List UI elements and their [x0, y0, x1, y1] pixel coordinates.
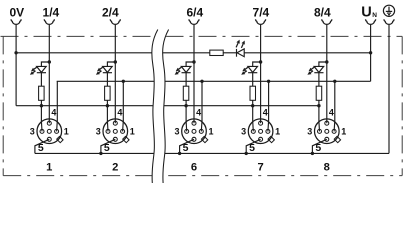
- svg-text:7/4: 7/4: [253, 5, 270, 19]
- wire UN drop to pin 1 socket 6: [200, 81, 203, 131]
- wire power indicator branch UN side: [244, 52, 370, 54]
- wire resistor to 0V rail and pin 3: [40, 100, 43, 131]
- svg-text:0V: 0V: [9, 5, 24, 19]
- resistor R7: [250, 86, 256, 100]
- svg-text:4: 4: [117, 108, 122, 118]
- socket X7 pin 1: [266, 129, 270, 133]
- wire pin 5 to PE bus socket 6: [180, 139, 194, 153]
- socket X7 body: [248, 119, 273, 144]
- svg-text:2: 2: [112, 161, 118, 173]
- junction PE bus 7: [245, 152, 248, 155]
- junction 0V rail 1: [40, 104, 43, 107]
- resistor R8: [316, 86, 322, 100]
- socket X7 pin 3: [251, 129, 255, 133]
- wire UN feed rail to pins 1: [57, 80, 371, 82]
- LED V7 emission arrows: [245, 67, 248, 69]
- socket X6 pin 1: [199, 129, 203, 133]
- socket X1 pin 5: [47, 137, 51, 141]
- wire LED branch socket 8: [319, 62, 327, 66]
- wire UN drop to pin 1 socket 8: [333, 81, 336, 131]
- wire PE bus to pins 5: [35, 152, 389, 154]
- junction 0V rail 7: [251, 104, 254, 107]
- wire pin 5 to PE bus socket 8: [312, 139, 326, 153]
- svg-text:1: 1: [130, 127, 135, 137]
- junction signal/LED 7: [259, 60, 262, 63]
- socket X2 pin 1: [121, 129, 125, 133]
- terminal PE: [384, 19, 394, 24]
- wire UN drop to pin 1 socket 7: [267, 81, 270, 131]
- svg-text:N: N: [372, 12, 377, 19]
- svg-text:1/4: 1/4: [43, 5, 60, 19]
- socket X2 body: [103, 119, 128, 144]
- wire: [252, 73, 254, 87]
- svg-text:4: 4: [263, 108, 268, 118]
- LED V1 (status): [37, 66, 47, 72]
- wire pin 5 to PE bus socket 2: [101, 139, 115, 153]
- wire 0V terminal drop: [15, 25, 17, 106]
- LED V8 emission arrows: [312, 67, 315, 69]
- junction UN rail 6: [200, 80, 203, 83]
- wire resistor to 0V rail and pin 3: [252, 100, 255, 131]
- wire UN drop to pin 1 socket 1: [56, 81, 59, 131]
- LED V9 emission arrows: [236, 43, 238, 47]
- socket X7 pin 2 (center): [259, 129, 263, 133]
- socket X2 keying notch: [123, 136, 129, 142]
- enclosure border left: [2, 36, 4, 175]
- wire resistor to 0V rail and pin 3: [106, 100, 109, 131]
- junction 0V rail 2: [106, 104, 109, 107]
- junction UN rail 2: [122, 80, 125, 83]
- svg-text:5: 5: [315, 142, 321, 154]
- wire LED branch socket 7: [253, 62, 261, 66]
- svg-text:1: 1: [46, 161, 52, 173]
- schematic break (continuation): [152, 30, 169, 184]
- socket X7 keying notch: [268, 136, 274, 142]
- terminal UN: [366, 19, 376, 24]
- svg-text:4: 4: [329, 108, 334, 118]
- enclosure border bottom: [3, 175, 402, 177]
- svg-text:8/4: 8/4: [314, 5, 331, 19]
- junction PE bus 2: [99, 152, 102, 155]
- socket X8 pin 1: [332, 129, 336, 133]
- socket X2 pin 5: [113, 137, 117, 141]
- socket X1 pin 2 (center): [47, 129, 51, 133]
- junction signal/LED 8: [325, 60, 328, 63]
- socket X8 pin 5: [325, 137, 329, 141]
- socket X1 pin 3: [40, 129, 44, 133]
- svg-text:5: 5: [38, 142, 44, 154]
- wire PE terminal drop: [388, 25, 390, 153]
- socket X1 pin 1: [55, 129, 59, 133]
- junction UN rail 7: [267, 80, 270, 83]
- socket X1 keying notch: [57, 136, 63, 142]
- socket X6 pin 3: [185, 129, 189, 133]
- LED V2 (status): [103, 66, 113, 72]
- junction UN rail 8: [333, 80, 336, 83]
- wire: [318, 73, 320, 87]
- socket X1 pin 4: [47, 121, 51, 125]
- svg-text:6: 6: [191, 161, 197, 173]
- socket X6 pin 2 (center): [192, 129, 196, 133]
- wire: [185, 73, 187, 87]
- terminal 0V: [11, 19, 21, 24]
- socket X8 pin 4: [325, 121, 329, 125]
- socket X7 pin 5: [259, 137, 263, 141]
- LED V2 emission arrows: [100, 67, 103, 69]
- svg-text:7: 7: [257, 161, 263, 173]
- svg-text:U: U: [361, 5, 371, 21]
- LED V6 (status): [181, 66, 191, 72]
- junction 0V rail 6: [184, 104, 187, 107]
- protective earth symbol PE: [383, 5, 394, 16]
- socket X8 body: [315, 119, 340, 144]
- svg-text:3: 3: [241, 127, 246, 137]
- wire signal terminal 6/4 drop to pin 4: [193, 25, 195, 123]
- wire resistor to 0V rail and pin 3: [185, 100, 188, 131]
- wire: [106, 73, 108, 87]
- socket X8 pin 3: [318, 129, 322, 133]
- wire LED branch socket 1: [41, 62, 49, 66]
- svg-text:4: 4: [196, 108, 201, 118]
- junction 0V rail 8: [317, 104, 320, 107]
- terminal 1/4: [44, 19, 54, 24]
- svg-text:3: 3: [174, 127, 179, 137]
- junction signal/LED 1: [48, 60, 51, 63]
- socket X6 pin 4: [192, 121, 196, 125]
- socket X2 pin 3: [106, 129, 110, 133]
- junction signal/LED 6: [192, 60, 195, 63]
- LED V6 emission arrows: [179, 67, 182, 69]
- enclosure border top: [1, 35, 403, 37]
- socket X1 body: [37, 119, 62, 144]
- socket X2 pin 4: [113, 121, 117, 125]
- wire pin 5 to PE bus socket 7: [246, 139, 260, 153]
- svg-text:5: 5: [183, 142, 189, 154]
- junction UN / indicator: [369, 51, 372, 54]
- terminal 8/4: [322, 19, 332, 24]
- svg-text:1: 1: [275, 127, 280, 137]
- terminal 6/4: [189, 19, 199, 24]
- socket X6 keying notch: [201, 136, 207, 142]
- svg-text:3: 3: [307, 127, 312, 137]
- junction signal/LED 2: [114, 60, 117, 63]
- junction PE bus 8: [311, 152, 314, 155]
- wire LED branch socket 6: [186, 62, 194, 66]
- terminal 7/4: [256, 19, 266, 24]
- wire pin 5 to PE bus socket 1: [35, 139, 49, 153]
- socket X8 keying notch: [334, 136, 340, 142]
- svg-text:1: 1: [341, 127, 346, 137]
- junction PE bus 6: [178, 152, 181, 155]
- svg-text:4: 4: [51, 108, 56, 118]
- socket X8 pin 2 (center): [325, 129, 329, 133]
- wire UN terminal drop: [370, 25, 372, 81]
- svg-text:8: 8: [324, 161, 330, 173]
- svg-text:1: 1: [64, 127, 69, 137]
- socket X6 body: [182, 119, 207, 144]
- terminal 2/4: [110, 19, 120, 24]
- socket X7 pin 4: [259, 121, 263, 125]
- wire signal terminal 1/4 drop to pin 4: [48, 25, 50, 123]
- enclosure border right: [401, 36, 403, 175]
- svg-text:6/4: 6/4: [186, 5, 203, 19]
- svg-text:2/4: 2/4: [102, 5, 119, 19]
- LED V9 (power indicator, cathode left): [236, 49, 238, 57]
- wire signal terminal 2/4 drop to pin 4: [114, 25, 116, 123]
- LED V7 (status): [248, 66, 258, 72]
- resistor R6: [183, 86, 189, 100]
- resistor R2: [105, 86, 111, 100]
- wire: [40, 73, 42, 87]
- svg-text:1: 1: [208, 127, 213, 137]
- wire resistor to 0V rail and pin 3: [318, 100, 321, 131]
- svg-text:3: 3: [96, 127, 101, 137]
- svg-text:5: 5: [104, 142, 110, 154]
- wire LED branch socket 2: [107, 62, 115, 66]
- socket X6 pin 5: [192, 137, 196, 141]
- wire signal terminal 8/4 drop to pin 4: [326, 25, 328, 123]
- socket X2 pin 2 (center): [113, 129, 117, 133]
- wire UN drop to pin 1 socket 2: [122, 81, 125, 131]
- junction 0V / indicator: [14, 51, 17, 54]
- wire signal terminal 7/4 drop to pin 4: [260, 25, 262, 123]
- wire 0V feed rail to pins 3: [16, 105, 319, 107]
- resistor R9 (power indicator): [210, 50, 223, 55]
- svg-text:5: 5: [249, 142, 255, 154]
- resistor R1: [39, 86, 45, 100]
- svg-text:3: 3: [30, 127, 35, 137]
- LED V1 emission arrows: [34, 67, 37, 69]
- wire power indicator branch 0V side: [16, 52, 210, 54]
- LED V8 (status): [314, 66, 324, 72]
- wire: [223, 52, 236, 54]
